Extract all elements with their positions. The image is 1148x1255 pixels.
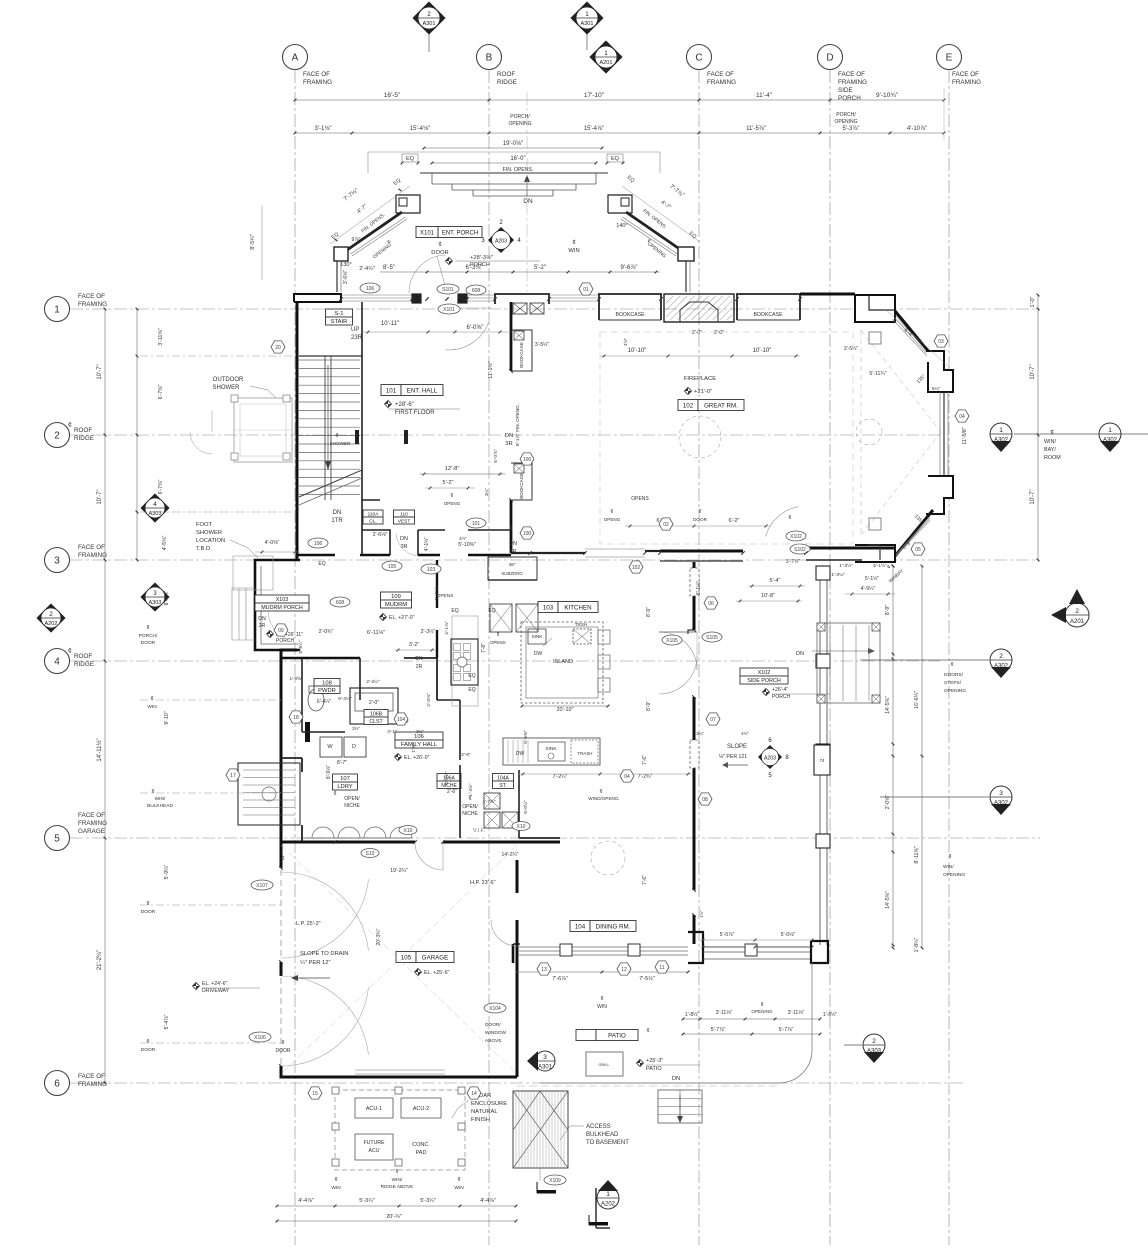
svg-text:10'-7": 10'-7" bbox=[97, 489, 103, 504]
svg-text:FACE OF: FACE OF bbox=[78, 812, 105, 819]
svg-text:5'-0⅞": 5'-0⅞" bbox=[493, 449, 499, 463]
svg-text:07: 07 bbox=[710, 717, 716, 723]
svg-text:WIN: WIN bbox=[597, 1004, 607, 1010]
svg-text:¢: ¢ bbox=[497, 632, 500, 638]
svg-text:2'-6": 2'-6" bbox=[461, 752, 471, 758]
svg-text:4'-4⅞": 4'-4⅞" bbox=[298, 1198, 314, 1204]
svg-text:101: 101 bbox=[472, 521, 481, 527]
svg-text:1'-3½": 1'-3½" bbox=[839, 562, 853, 569]
svg-text:2'-0": 2'-0" bbox=[714, 330, 724, 336]
svg-text:5'-4": 5'-4" bbox=[770, 578, 781, 584]
svg-text:14'-2¼": 14'-2¼" bbox=[502, 852, 519, 858]
svg-text:C: C bbox=[695, 53, 702, 64]
svg-text:ROOF: ROOF bbox=[74, 427, 92, 434]
svg-text:6'-2": 6'-2" bbox=[729, 518, 740, 524]
svg-text:BULKHEAD: BULKHEAD bbox=[147, 803, 173, 809]
svg-text:ABOVE: ABOVE bbox=[485, 1038, 502, 1044]
svg-text:EL. +25'-6": EL. +25'-6" bbox=[424, 970, 450, 976]
svg-text:2'-0": 2'-0" bbox=[369, 700, 379, 706]
svg-text:8'-1⅛": 8'-1⅛" bbox=[696, 581, 702, 595]
svg-text:4½": 4½" bbox=[459, 535, 467, 541]
svg-text:5'-1½": 5'-1½" bbox=[865, 575, 879, 582]
svg-text:NICHE: NICHE bbox=[462, 811, 478, 817]
svg-text:2: 2 bbox=[1075, 608, 1079, 615]
svg-text:FIRST FLOOR: FIRST FLOOR bbox=[395, 410, 435, 416]
svg-text:¢: ¢ bbox=[68, 422, 72, 429]
svg-text:5'-6½": 5'-6½" bbox=[297, 640, 303, 653]
svg-text:106B: 106B bbox=[370, 711, 383, 717]
svg-text:110A: 110A bbox=[368, 512, 380, 518]
svg-text:5'-5⅜": 5'-5⅜" bbox=[523, 730, 529, 744]
svg-text:1'-9": 1'-9" bbox=[411, 743, 417, 753]
svg-text:3'-5¼": 3'-5¼" bbox=[844, 346, 858, 352]
svg-text:6'-7⅜": 6'-7⅜" bbox=[158, 385, 164, 400]
svg-text:102: 102 bbox=[683, 402, 694, 409]
svg-text:15'-4⅞": 15'-4⅞" bbox=[584, 126, 604, 132]
svg-text:A201: A201 bbox=[599, 60, 612, 66]
svg-text:5'-1½": 5'-1½" bbox=[873, 562, 887, 569]
svg-text:5'-11¼": 5'-11¼" bbox=[869, 371, 886, 377]
svg-text:PORCH/: PORCH/ bbox=[510, 114, 530, 120]
svg-text:4'-1⅛": 4'-1⅛" bbox=[444, 621, 450, 635]
svg-text:7'-6": 7'-6" bbox=[642, 875, 648, 885]
svg-text:DN: DN bbox=[400, 536, 408, 542]
svg-text:WIN/: WIN/ bbox=[155, 796, 166, 802]
svg-text:¢: ¢ bbox=[150, 696, 153, 702]
svg-text:4'-0⅝": 4'-0⅝" bbox=[265, 540, 280, 546]
svg-text:8'-9": 8'-9" bbox=[646, 701, 652, 711]
svg-text:SHOWER: SHOWER bbox=[196, 530, 222, 536]
svg-text:1: 1 bbox=[999, 427, 1003, 434]
svg-text:BOOKCASE: BOOKCASE bbox=[615, 312, 645, 318]
svg-text:¢: ¢ bbox=[438, 242, 441, 248]
svg-text:11'-5/8": 11'-5/8" bbox=[962, 427, 968, 444]
svg-text:PATIO: PATIO bbox=[608, 1032, 626, 1039]
svg-text:¢: ¢ bbox=[599, 789, 602, 795]
svg-text:3'-6⅝": 3'-6⅝" bbox=[343, 270, 349, 284]
svg-text:7'-8": 7'-8" bbox=[481, 643, 487, 653]
svg-text:09: 09 bbox=[278, 628, 284, 634]
svg-text:EL. +27'-0": EL. +27'-0" bbox=[389, 615, 415, 621]
svg-text:8'-7": 8'-7" bbox=[337, 760, 347, 766]
svg-text:BAY/: BAY/ bbox=[1044, 447, 1056, 453]
svg-text:EQ: EQ bbox=[406, 156, 415, 162]
svg-text:2R: 2R bbox=[259, 623, 266, 629]
svg-text:DINING RM.: DINING RM. bbox=[596, 923, 631, 930]
svg-text:EL. +24'-6": EL. +24'-6" bbox=[202, 981, 228, 987]
svg-text:OPENING: OPENING bbox=[944, 688, 966, 694]
svg-text:X105: X105 bbox=[666, 638, 678, 644]
svg-text:2: 2 bbox=[872, 1038, 876, 1045]
svg-text:14'-11½": 14'-11½" bbox=[96, 738, 103, 761]
svg-text:SIDE: SIDE bbox=[838, 87, 853, 94]
svg-text:3¼": 3¼" bbox=[484, 488, 489, 496]
svg-text:5'-0⅞": 5'-0⅞" bbox=[720, 932, 735, 938]
svg-text:5'-3¼": 5'-3¼" bbox=[359, 1198, 375, 1204]
svg-text:¢: ¢ bbox=[281, 856, 284, 862]
svg-text:11: 11 bbox=[659, 965, 664, 971]
svg-text:PWDR: PWDR bbox=[318, 688, 336, 694]
svg-text:CL.: CL. bbox=[369, 519, 376, 525]
svg-text:OPENG: OPENG bbox=[490, 640, 506, 645]
svg-text:1TR: 1TR bbox=[331, 518, 343, 524]
svg-text:3'-11⅝": 3'-11⅝" bbox=[158, 328, 164, 345]
svg-text:8'-5¼": 8'-5¼" bbox=[250, 234, 256, 250]
svg-text:SLOPE TO DRAIN: SLOPE TO DRAIN bbox=[300, 951, 348, 957]
svg-text:5'-0⅝": 5'-0⅝" bbox=[444, 771, 450, 785]
svg-text:1'-8¼": 1'-8¼" bbox=[823, 1012, 837, 1018]
svg-text:12: 12 bbox=[621, 967, 627, 973]
svg-text:X101: X101 bbox=[443, 307, 455, 313]
svg-text:1'-8¼": 1'-8¼" bbox=[685, 1012, 699, 1018]
svg-text:W: W bbox=[327, 744, 333, 750]
svg-text:7'-5½": 7'-5½" bbox=[639, 975, 655, 982]
svg-text:¢: ¢ bbox=[333, 791, 336, 797]
svg-text:SIDE PORCH: SIDE PORCH bbox=[747, 678, 781, 684]
svg-text:19'-2¼": 19'-2¼" bbox=[390, 868, 408, 874]
svg-text:6'-3⅞": 6'-3⅞" bbox=[466, 265, 483, 271]
svg-text:5'-3⅞": 5'-3⅞" bbox=[843, 126, 860, 132]
svg-text:X106: X106 bbox=[254, 1035, 266, 1041]
svg-text:+26'-4": +26'-4" bbox=[772, 687, 788, 693]
svg-text:EQ: EQ bbox=[451, 608, 458, 614]
svg-text:140°: 140° bbox=[616, 223, 627, 229]
svg-text:X101: X101 bbox=[420, 230, 435, 236]
svg-text:EQ: EQ bbox=[318, 561, 325, 567]
svg-text:04: 04 bbox=[959, 414, 965, 420]
svg-text:A203: A203 bbox=[495, 238, 507, 244]
svg-text:DOOR/: DOOR/ bbox=[485, 1022, 501, 1028]
svg-text:X102: X102 bbox=[758, 670, 771, 676]
svg-text:A203: A203 bbox=[764, 755, 776, 761]
svg-text:15: 15 bbox=[312, 1091, 318, 1097]
svg-text:1: 1 bbox=[1108, 427, 1112, 434]
svg-text:5: 5 bbox=[54, 834, 60, 845]
svg-text:FINISH: FINISH bbox=[471, 1117, 490, 1123]
svg-text:FACE OF: FACE OF bbox=[838, 71, 865, 78]
svg-text:18: 18 bbox=[293, 715, 299, 721]
svg-text:16'-6¼": 16'-6¼" bbox=[914, 691, 920, 709]
svg-text:8'-9⅛": 8'-9⅛" bbox=[326, 765, 332, 779]
svg-text:2'-0¾": 2'-0¾" bbox=[319, 629, 334, 635]
svg-text:S10: S10 bbox=[366, 851, 375, 857]
svg-text:OPEN/: OPEN/ bbox=[462, 804, 478, 810]
svg-text:X107: X107 bbox=[256, 883, 268, 889]
svg-text:LDRY: LDRY bbox=[337, 784, 352, 790]
svg-text:+28'-3½": +28'-3½" bbox=[470, 254, 493, 261]
svg-text:10'-10": 10'-10" bbox=[628, 348, 647, 354]
svg-text:2'-6": 2'-6" bbox=[447, 789, 457, 795]
svg-text:FACE OF: FACE OF bbox=[707, 71, 734, 78]
svg-text:12'-8": 12'-8" bbox=[445, 466, 460, 472]
svg-text:5'-2": 5'-2" bbox=[534, 265, 546, 271]
svg-text:48": 48" bbox=[508, 562, 515, 568]
svg-text:3: 3 bbox=[153, 590, 157, 597]
svg-text:21'-2¼": 21'-2¼" bbox=[97, 950, 103, 970]
svg-text:GARAGE: GARAGE bbox=[78, 828, 105, 835]
svg-text:PORCH: PORCH bbox=[276, 638, 294, 644]
svg-text:¢: ¢ bbox=[146, 901, 149, 907]
svg-text:5'-2": 5'-2" bbox=[443, 480, 454, 486]
svg-text:2: 2 bbox=[999, 653, 1003, 660]
svg-text:NICHE: NICHE bbox=[344, 803, 360, 809]
svg-text:FACE OF: FACE OF bbox=[303, 71, 330, 78]
svg-text:17'-10": 17'-10" bbox=[584, 92, 605, 99]
svg-text:2'-6⅛": 2'-6⅛" bbox=[373, 532, 388, 538]
svg-text:¢: ¢ bbox=[789, 515, 792, 521]
svg-text:10'-7": 10'-7" bbox=[97, 364, 103, 379]
svg-text:11'-1½": 11'-1½" bbox=[487, 361, 494, 378]
svg-text:20: 20 bbox=[275, 345, 281, 351]
svg-text:2R: 2R bbox=[416, 664, 423, 670]
svg-text:5¼": 5¼" bbox=[932, 386, 941, 392]
svg-text:DOOR: DOOR bbox=[276, 1048, 291, 1054]
svg-text:5'-3¼": 5'-3¼" bbox=[420, 1198, 436, 1204]
svg-text:1: 1 bbox=[54, 305, 60, 316]
svg-text:13: 13 bbox=[541, 967, 547, 973]
svg-text:+25'-3": +25'-3" bbox=[646, 1058, 663, 1064]
svg-text:EL. +26'-0": EL. +26'-0" bbox=[404, 755, 430, 761]
svg-text:CLST: CLST bbox=[369, 719, 383, 725]
svg-text:2'-4¼": 2'-4¼" bbox=[359, 266, 375, 272]
svg-text:DN: DN bbox=[333, 510, 342, 516]
svg-text:¢: ¢ bbox=[611, 509, 614, 515]
svg-text:1'-4¾": 1'-4¾" bbox=[434, 587, 439, 600]
svg-text:17: 17 bbox=[230, 773, 236, 779]
svg-text:OPENS: OPENS bbox=[437, 593, 454, 599]
svg-text:FRAMING: FRAMING bbox=[78, 301, 107, 308]
svg-text:¢: ¢ bbox=[600, 996, 603, 1002]
svg-text:BOOKCASE: BOOKCASE bbox=[753, 312, 783, 318]
svg-text:04: 04 bbox=[624, 774, 630, 780]
svg-text:D: D bbox=[352, 744, 356, 750]
svg-text:TO BASEMENT: TO BASEMENT bbox=[586, 1140, 629, 1146]
svg-text:8'-1¼": 8'-1¼" bbox=[164, 591, 170, 606]
svg-text:1'-4⅝": 1'-4⅝" bbox=[468, 783, 473, 796]
svg-text:104A: 104A bbox=[497, 775, 509, 781]
svg-text:1'-8⅝": 1'-8⅝" bbox=[290, 676, 303, 681]
svg-text:05: 05 bbox=[915, 547, 921, 553]
svg-text:A202: A202 bbox=[601, 1202, 616, 1208]
svg-text:BULKHEAD: BULKHEAD bbox=[586, 1132, 619, 1138]
svg-text:105: 105 bbox=[401, 954, 412, 961]
svg-text:DW: DW bbox=[534, 651, 543, 657]
svg-text:DN: DN bbox=[509, 541, 517, 547]
svg-text:A: A bbox=[292, 53, 299, 64]
svg-text:MUDRM PORCH: MUDRM PORCH bbox=[261, 605, 303, 611]
svg-text:8'-11⅝": 8'-11⅝" bbox=[914, 846, 920, 863]
svg-text:DRIVEWAY: DRIVEWAY bbox=[202, 988, 230, 994]
svg-text:10'-11": 10'-11" bbox=[381, 321, 399, 327]
svg-text:A201: A201 bbox=[1070, 619, 1085, 625]
svg-text:X10: X10 bbox=[404, 828, 413, 834]
svg-text:DOOR: DOOR bbox=[141, 909, 156, 915]
svg-text:FRAMING: FRAMING bbox=[838, 79, 867, 86]
svg-text:2: 2 bbox=[54, 431, 60, 442]
svg-text:2: 2 bbox=[427, 11, 431, 18]
svg-text:FRAMING: FRAMING bbox=[78, 1081, 107, 1088]
svg-text:5'-0½": 5'-0½" bbox=[522, 800, 529, 814]
svg-text:106: 106 bbox=[314, 541, 323, 547]
svg-text:FRAMING: FRAMING bbox=[707, 79, 736, 86]
svg-text:S101: S101 bbox=[442, 287, 454, 293]
svg-text:FACE OF: FACE OF bbox=[78, 293, 105, 300]
svg-text:E: E bbox=[946, 53, 953, 64]
svg-text:1: 1 bbox=[604, 50, 608, 57]
svg-text:1: 1 bbox=[606, 1191, 610, 1198]
svg-text:PAD: PAD bbox=[416, 1150, 427, 1156]
svg-text:EQ: EQ bbox=[468, 673, 475, 679]
svg-text:+28'-6": +28'-6" bbox=[395, 402, 414, 408]
svg-text:GRILL: GRILL bbox=[599, 1063, 610, 1067]
svg-text:101: 101 bbox=[386, 387, 397, 394]
svg-text:01: 01 bbox=[583, 287, 589, 293]
svg-text:FACE OF: FACE OF bbox=[78, 1073, 105, 1080]
svg-text:3: 3 bbox=[54, 556, 60, 567]
svg-text:103: 103 bbox=[427, 567, 436, 573]
svg-text:RIDGE: RIDGE bbox=[74, 435, 94, 442]
svg-text:7'-6⅞": 7'-6⅞" bbox=[552, 976, 568, 982]
svg-text:ST.: ST. bbox=[499, 783, 506, 789]
svg-text:X102: X102 bbox=[790, 534, 802, 540]
svg-text:3R: 3R bbox=[509, 549, 516, 555]
svg-text:BOOKCASE: BOOKCASE bbox=[519, 473, 524, 499]
svg-text:608: 608 bbox=[472, 288, 481, 294]
svg-text:3⅝": 3⅝" bbox=[623, 338, 628, 346]
svg-text:9'-6⅞": 9'-6⅞" bbox=[621, 265, 638, 271]
svg-text:SINK: SINK bbox=[545, 746, 557, 752]
svg-text:ENT. HALL: ENT. HALL bbox=[407, 387, 438, 394]
svg-text:ROOF: ROOF bbox=[497, 71, 515, 78]
svg-text:FRAMING: FRAMING bbox=[78, 820, 107, 827]
svg-text:4'-1": 4'-1" bbox=[387, 729, 397, 735]
svg-text:SLOPE: SLOPE bbox=[727, 744, 747, 750]
svg-text:7'-2¼": 7'-2¼" bbox=[553, 774, 568, 780]
svg-text:104: 104 bbox=[575, 923, 586, 930]
svg-text:WIN/: WIN/ bbox=[1044, 439, 1056, 445]
svg-text:8'-9": 8'-9" bbox=[646, 607, 652, 617]
svg-text:STEPS/: STEPS/ bbox=[944, 680, 962, 686]
svg-text:ACCESS: ACCESS bbox=[586, 1124, 611, 1130]
svg-text:FAMILY HALL: FAMILY HALL bbox=[401, 742, 438, 748]
svg-text:OPENS: OPENS bbox=[631, 496, 649, 502]
svg-text:TRSH: TRSH bbox=[575, 622, 588, 627]
svg-text:FRAMING: FRAMING bbox=[78, 552, 107, 559]
svg-text:KITCHEN: KITCHEN bbox=[564, 604, 591, 611]
svg-text:¢: ¢ bbox=[146, 625, 149, 631]
svg-text:DW: DW bbox=[516, 751, 525, 757]
svg-text:S105: S105 bbox=[706, 635, 718, 641]
svg-text:6'-0⅝": 6'-0⅝" bbox=[467, 325, 484, 331]
svg-text:107: 107 bbox=[340, 776, 350, 782]
svg-text:2: 2 bbox=[49, 611, 53, 618]
svg-text:X103: X103 bbox=[276, 597, 289, 603]
svg-text:PORCH/: PORCH/ bbox=[139, 633, 158, 639]
svg-text:608: 608 bbox=[336, 600, 345, 606]
svg-text:¢: ¢ bbox=[146, 1039, 149, 1045]
svg-text:3'-5¼": 3'-5¼" bbox=[535, 342, 549, 348]
svg-text:ACU: ACU bbox=[369, 1148, 380, 1154]
svg-text:4½": 4½" bbox=[741, 730, 749, 736]
svg-text:105: 105 bbox=[388, 564, 397, 570]
svg-text:11'-4": 11'-4" bbox=[756, 92, 773, 99]
svg-text:4'-9¼": 4'-9¼" bbox=[861, 586, 876, 592]
svg-text:ENT. PORCH: ENT. PORCH bbox=[442, 230, 478, 236]
svg-text:CONC.: CONC. bbox=[412, 1142, 430, 1148]
svg-text:OUTDOOR: OUTDOOR bbox=[213, 377, 244, 383]
svg-text:TRASH: TRASH bbox=[578, 751, 593, 756]
svg-text:8'-5": 8'-5" bbox=[383, 265, 395, 271]
svg-text:109: 109 bbox=[391, 594, 401, 600]
svg-text:L.P. 25'-2": L.P. 25'-2" bbox=[296, 921, 321, 927]
svg-text:DN: DN bbox=[672, 1076, 680, 1082]
svg-text:OPENING: OPENING bbox=[751, 1009, 773, 1014]
svg-text:¢: ¢ bbox=[699, 509, 702, 515]
svg-text:DOORS/: DOORS/ bbox=[944, 672, 964, 678]
svg-text:23R: 23R bbox=[351, 335, 363, 341]
svg-text:PATIO: PATIO bbox=[646, 1066, 662, 1072]
svg-text:¢: ¢ bbox=[334, 1177, 337, 1183]
svg-text:5'-9¼": 5'-9¼" bbox=[164, 865, 170, 880]
svg-text:A301: A301 bbox=[422, 21, 435, 27]
svg-text:FACE OF: FACE OF bbox=[952, 71, 979, 78]
svg-text:5'-10⅜": 5'-10⅜" bbox=[458, 542, 476, 548]
svg-text:SINK: SINK bbox=[532, 634, 544, 639]
svg-text:OPENG: OPENG bbox=[604, 517, 621, 522]
svg-text:A301: A301 bbox=[580, 21, 593, 27]
svg-text:4'-5⅝": 4'-5⅝" bbox=[162, 536, 168, 551]
svg-text:A202: A202 bbox=[44, 621, 57, 627]
svg-text:4'-1¼": 4'-1¼" bbox=[424, 537, 430, 551]
svg-text:MUDRM: MUDRM bbox=[385, 602, 407, 608]
svg-text:03: 03 bbox=[938, 339, 944, 345]
svg-text:110: 110 bbox=[400, 512, 408, 518]
svg-text:4: 4 bbox=[153, 501, 157, 508]
svg-text:ROOM: ROOM bbox=[1044, 455, 1061, 461]
svg-text:3½": 3½" bbox=[416, 729, 424, 734]
svg-text:RIDGE: RIDGE bbox=[497, 79, 517, 86]
svg-text:FOOT: FOOT bbox=[196, 522, 213, 528]
svg-text:OPENG: OPENG bbox=[444, 501, 461, 506]
svg-text:DN: DN bbox=[415, 656, 423, 662]
svg-text:DOOR: DOOR bbox=[141, 1047, 156, 1053]
svg-text:D: D bbox=[826, 53, 833, 64]
svg-text:¢: ¢ bbox=[68, 648, 72, 655]
svg-text:3½": 3½" bbox=[352, 726, 360, 731]
svg-text:¢: ¢ bbox=[646, 1028, 649, 1034]
svg-text:74: 74 bbox=[819, 758, 825, 763]
svg-text:UP: UP bbox=[351, 327, 359, 333]
svg-text:9'-10": 9'-10" bbox=[164, 711, 170, 724]
svg-text:08: 08 bbox=[702, 797, 708, 803]
svg-text:NATURAL: NATURAL bbox=[471, 1109, 498, 1115]
svg-text:DOOR: DOOR bbox=[431, 250, 448, 256]
svg-text:5'-7⅞": 5'-7⅞" bbox=[711, 1027, 726, 1033]
svg-text:10'-7": 10'-7" bbox=[1030, 489, 1036, 504]
svg-text:1: 1 bbox=[585, 11, 589, 18]
svg-text:1'-8¼": 1'-8¼" bbox=[914, 938, 920, 953]
svg-text:SUBZERO: SUBZERO bbox=[501, 571, 523, 576]
svg-text:6'-11⅛": 6'-11⅛" bbox=[367, 630, 385, 636]
svg-text:STAIR: STAIR bbox=[331, 319, 348, 325]
svg-text:14'-5⅜": 14'-5⅜" bbox=[885, 891, 891, 909]
svg-text:A301: A301 bbox=[538, 1065, 553, 1071]
svg-text:3R: 3R bbox=[505, 441, 512, 447]
svg-text:06: 06 bbox=[708, 601, 714, 607]
svg-text:10'-8": 10'-8" bbox=[761, 593, 775, 599]
svg-text:2'-2½": 2'-2½" bbox=[367, 678, 380, 684]
svg-text:X104: X104 bbox=[489, 1006, 501, 1012]
